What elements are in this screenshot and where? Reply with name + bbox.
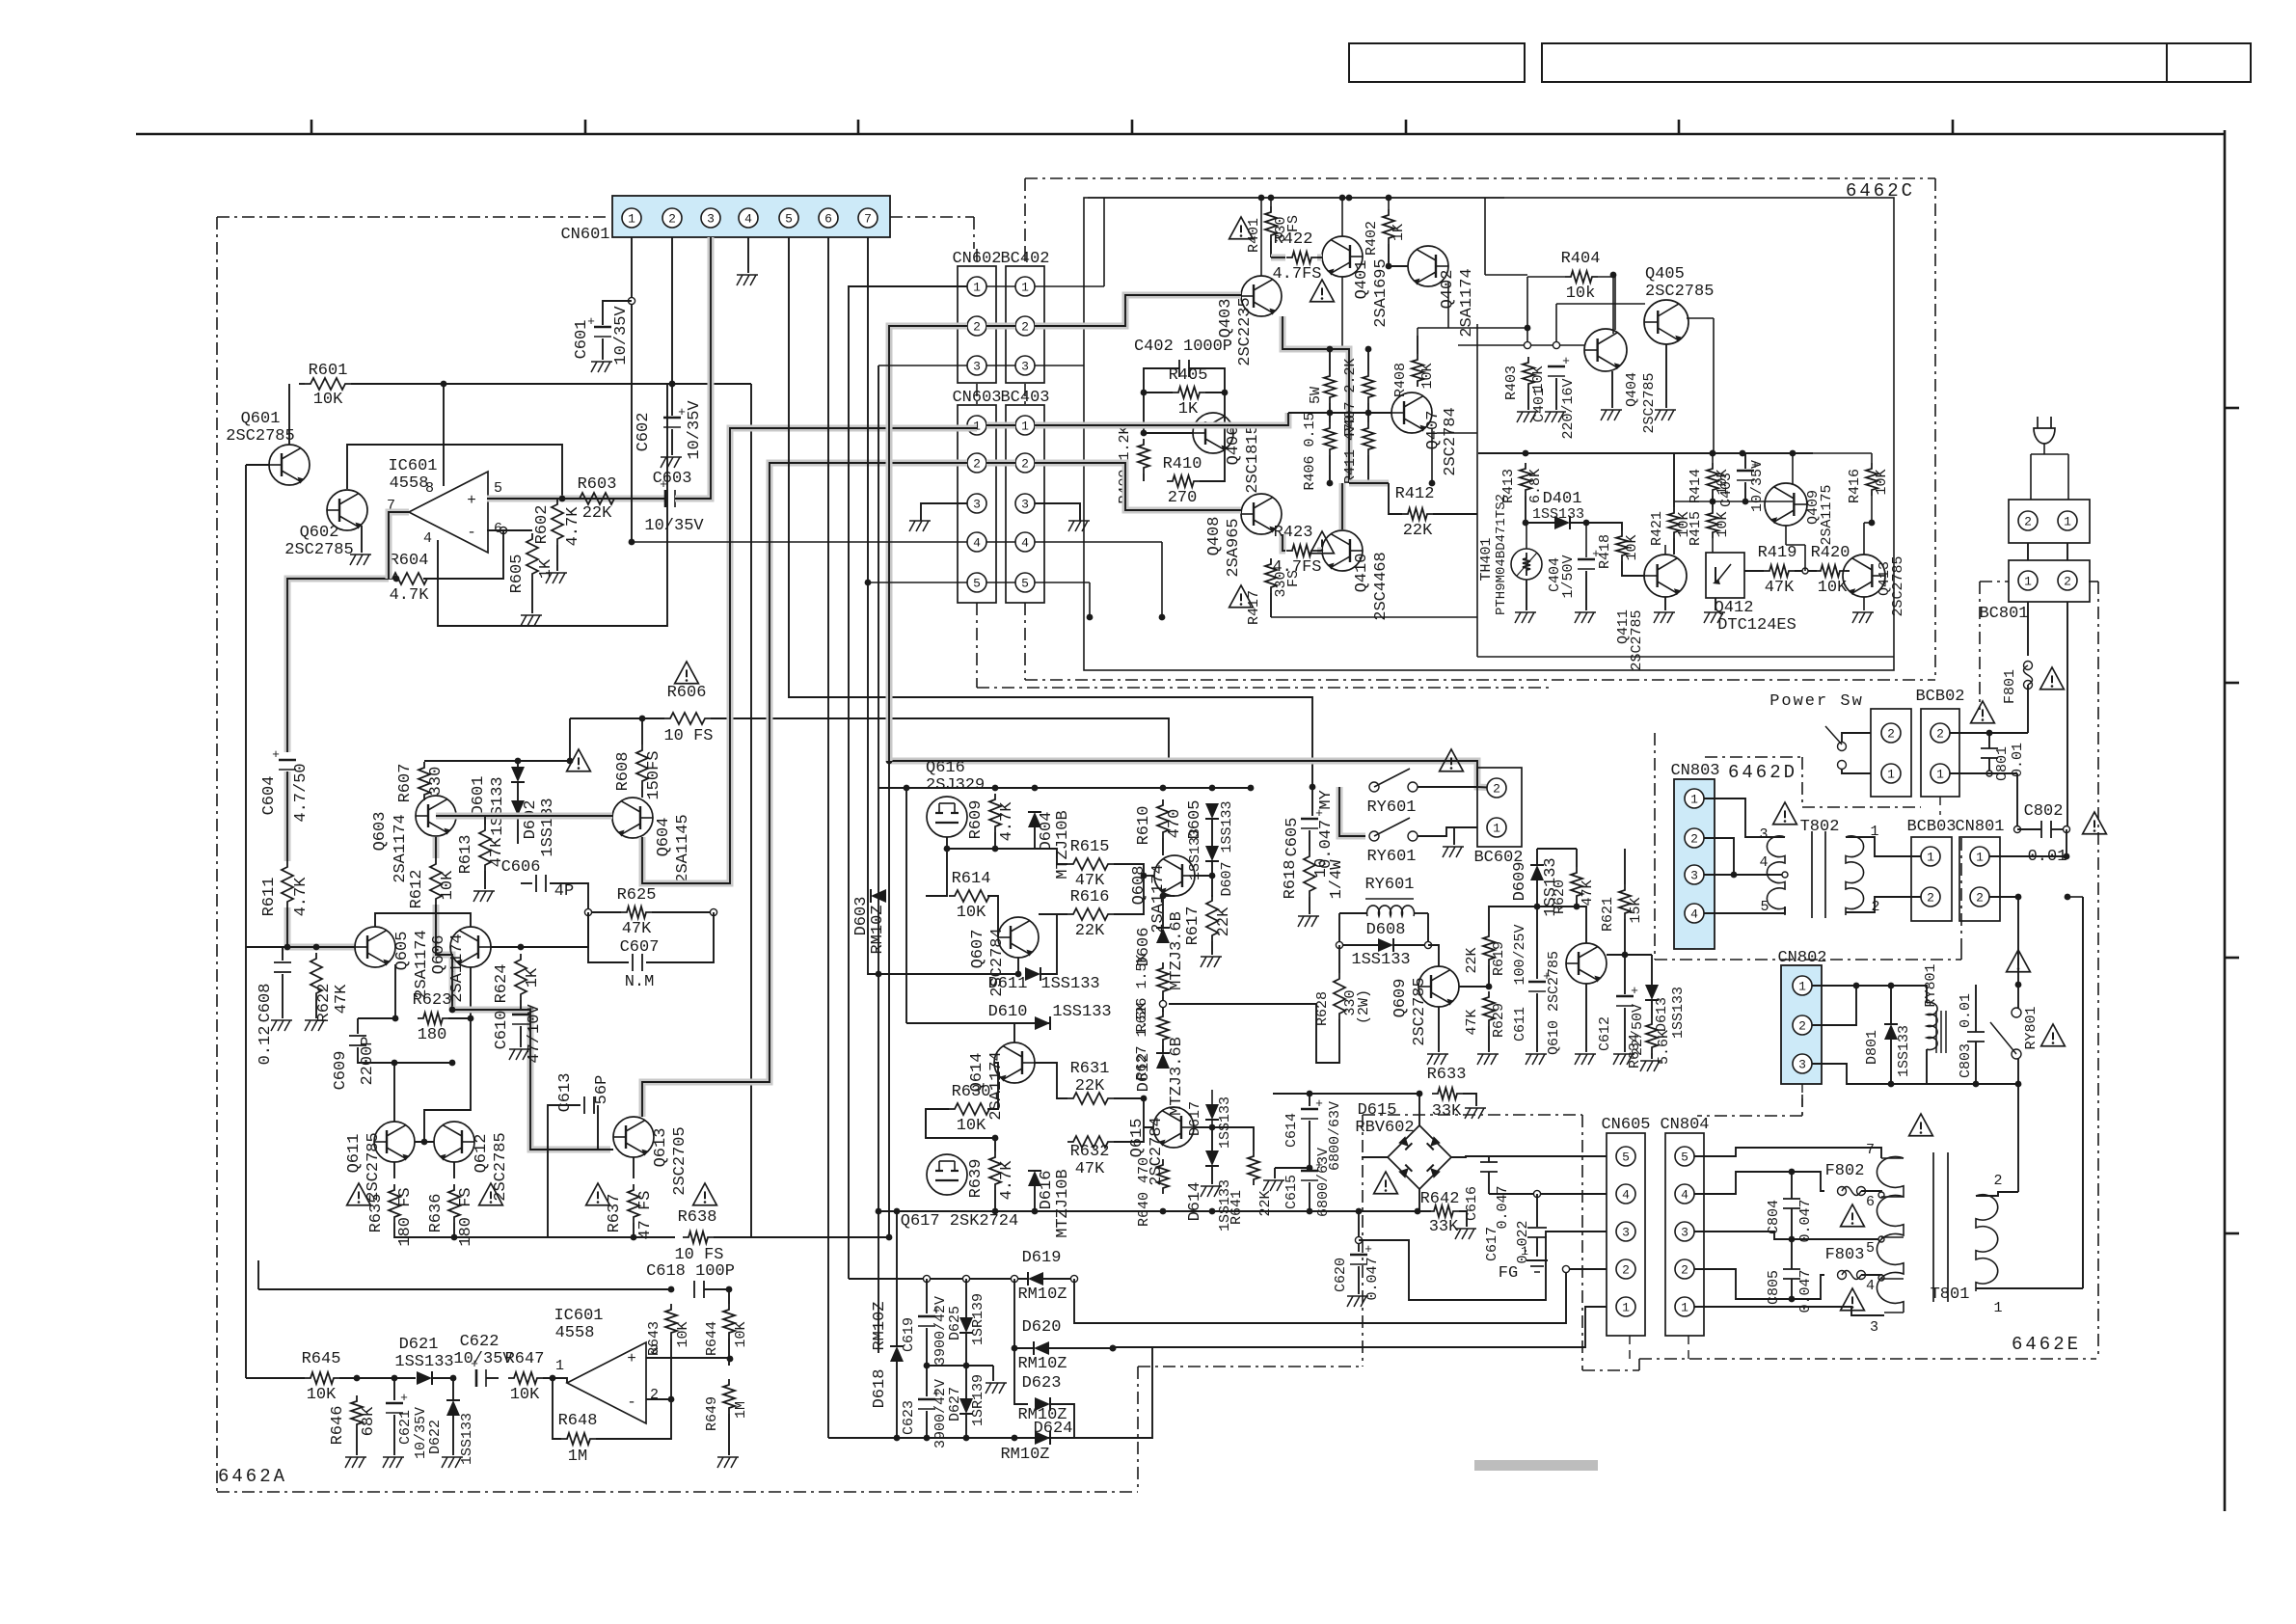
wire (415, 1141, 434, 1143)
gray R422 (1271, 255, 1285, 261)
wire (1163, 895, 1175, 897)
svg-text:D601: D601 (470, 776, 488, 816)
wire (1339, 944, 1378, 946)
wire (750, 384, 752, 1237)
wire (394, 964, 396, 1018)
svg-text:2200P: 2200P (359, 1036, 377, 1085)
svg-text:1: 1 (1521, 1244, 1528, 1259)
wire (470, 1018, 472, 1063)
CN601 pin 3 (701, 208, 720, 228)
svg-text:270: 270 (1168, 489, 1198, 507)
CN603 pin 1 (967, 416, 986, 435)
svg-text:Q610 2SC2785: Q610 2SC2785 (1546, 951, 1562, 1055)
svg-text:22K: 22K (1215, 907, 1233, 936)
wire (1527, 390, 1529, 410)
wire (1114, 864, 1144, 876)
svg-text:5.6K: 5.6K (1656, 1030, 1672, 1065)
svg-text:2SA1174: 2SA1174 (1458, 268, 1476, 337)
svg-text:10/35V: 10/35V (644, 517, 704, 535)
wire (987, 1063, 998, 1109)
svg-text:R423: R423 (1274, 524, 1313, 542)
title block left box (1349, 43, 1525, 82)
svg-text:2: 2 (2064, 575, 2071, 589)
wire (947, 849, 1067, 864)
gray q603 r612 (433, 837, 440, 858)
svg-text:150FS: 150FS (645, 750, 663, 799)
svg-text:R607: R607 (396, 764, 415, 803)
svg-text:1SS133: 1SS133 (1052, 1003, 1111, 1021)
CN605 pin 5 (1616, 1147, 1635, 1166)
svg-text:10K: 10K (313, 391, 343, 409)
CN801 pin2 (1970, 887, 1989, 907)
svg-text:2: 2 (1493, 782, 1500, 797)
resistor R420 (1815, 565, 1846, 577)
warning triangle T802 (1773, 802, 1797, 825)
resistor R408 (1412, 354, 1423, 387)
svg-text:5: 5 (1866, 1240, 1875, 1257)
svg-text:CN602: CN602 (952, 250, 1001, 268)
wire (375, 913, 471, 927)
svg-text:2: 2 (1798, 1019, 1806, 1034)
BC802 pin1 (1931, 764, 1950, 783)
wire Q401 to rail (1341, 198, 1343, 236)
resistor R404 (1565, 271, 1598, 283)
svg-text:10K: 10K (1874, 469, 1890, 495)
wire R414 top to rail (1712, 453, 1714, 463)
diode D619 (1028, 1272, 1043, 1286)
svg-text:6: 6 (824, 212, 832, 227)
wire (1624, 1008, 1626, 1052)
warning triangle T801 (1909, 1114, 1933, 1136)
transformer T802 primary (1767, 836, 1785, 915)
svg-text:1: 1 (1936, 768, 1944, 782)
svg-text:3: 3 (1681, 1226, 1688, 1240)
gray2 (456, 813, 612, 820)
svg-text:R637: R637 (606, 1194, 624, 1233)
CN804 pin 3 (1675, 1222, 1694, 1241)
wire (393, 1378, 395, 1400)
wire (704, 1288, 729, 1290)
wire (1744, 482, 1746, 501)
AC plug (2034, 428, 2055, 444)
svg-text:RM10Z: RM10Z (869, 905, 887, 954)
svg-text:C803: C803 (1958, 1043, 1974, 1078)
resistor R413 (1520, 463, 1531, 496)
wire (2027, 602, 2029, 656)
svg-text:22K: 22K (1257, 1190, 1274, 1216)
svg-text:4.7/50: 4.7/50 (292, 763, 311, 822)
capacitor C604 (279, 759, 296, 762)
capacitor C618 (668, 1286, 675, 1293)
wire (1715, 598, 1716, 610)
wire (1673, 453, 1675, 507)
svg-text:4: 4 (423, 530, 432, 547)
svg-text:Q604: Q604 (655, 818, 673, 857)
wire (1050, 1404, 1074, 1438)
wire (1526, 580, 1527, 610)
wire (393, 1063, 395, 1122)
resistor R415 (1707, 507, 1718, 538)
relay contact RY601 b (1369, 831, 1379, 841)
wire (1791, 1172, 1793, 1199)
wire (1988, 733, 1990, 748)
wire (926, 1328, 928, 1366)
svg-text:R632: R632 (1070, 1143, 1110, 1161)
svg-text:R419: R419 (1758, 544, 1797, 562)
wire (633, 1157, 635, 1178)
warning triangle Q410 (1310, 531, 1335, 554)
diode D605 (1205, 803, 1219, 819)
wire (1014, 1348, 1028, 1404)
CN801 pin1 (1970, 847, 1989, 866)
svg-text:R644: R644 (704, 1321, 720, 1356)
svg-text:Q412: Q412 (1715, 599, 1754, 617)
svg-text:5: 5 (494, 480, 502, 497)
wire (556, 545, 558, 571)
svg-text:R643: R643 (646, 1321, 662, 1356)
gray base row (287, 907, 355, 947)
wire (1418, 786, 1477, 788)
wire (1555, 378, 1557, 410)
wire (728, 1289, 730, 1304)
wire (1585, 571, 1587, 610)
wire (1311, 787, 1313, 816)
transistor Q610 (1566, 943, 1607, 984)
svg-text:RY601: RY601 (1364, 876, 1414, 894)
svg-text:T802: T802 (1800, 818, 1840, 836)
svg-text:2SC2785: 2SC2785 (284, 541, 353, 559)
wire (2051, 828, 2066, 830)
diode D617 (1211, 1090, 1213, 1104)
capacitor C803 (1967, 1031, 1985, 1033)
wire (1463, 1094, 1476, 1106)
resistor R414 (1707, 463, 1718, 496)
inner box 6462C (1084, 198, 1894, 670)
svg-text:+: + (1631, 984, 1638, 998)
svg-text:3: 3 (1021, 498, 1029, 512)
wire (1114, 876, 1144, 914)
svg-text:1SS133: 1SS133 (1187, 828, 1203, 880)
resistor R411 (1363, 422, 1374, 455)
wire (905, 788, 907, 1023)
svg-text:C801: C801 (1994, 746, 2011, 781)
svg-text:Q603: Q603 (371, 812, 390, 852)
wire (438, 384, 667, 626)
wire (521, 912, 588, 947)
svg-text:R634: R634 (1627, 1034, 1643, 1069)
wire (1673, 538, 1675, 555)
svg-text:1: 1 (1021, 420, 1029, 434)
transistor Q607 (998, 917, 1039, 958)
warning triangle bridge (1374, 1172, 1398, 1194)
transistor Q401 (1322, 236, 1363, 277)
gray ry601 b (1339, 787, 1365, 836)
warning triangle R635 (347, 1183, 371, 1205)
wire (1358, 1244, 1360, 1252)
wire (1625, 954, 1652, 956)
thermistor TH401 (1511, 549, 1542, 580)
connector CN603 body (958, 405, 996, 603)
resistor R620 (1571, 867, 1582, 902)
svg-text:Q406: Q406 (1225, 426, 1243, 466)
svg-text:C805: C805 (1766, 1270, 1782, 1305)
wire (641, 718, 643, 744)
BC403 pin 4 (1015, 532, 1035, 552)
wire (424, 760, 570, 762)
transistor Q405 (1644, 300, 1688, 344)
wire (1576, 902, 1578, 907)
svg-text:8: 8 (425, 480, 434, 497)
svg-text:C614: C614 (1283, 1113, 1300, 1148)
svg-text:10K: 10K (957, 1117, 986, 1135)
wire (641, 787, 643, 798)
svg-text:DTC124ES: DTC124ES (1717, 616, 1796, 635)
wire (1211, 1166, 1213, 1184)
svg-text:C605: C605 (1283, 818, 1302, 857)
warning triangle C802 (2083, 812, 2107, 834)
wire (1795, 570, 1817, 572)
svg-text:D622: D622 (427, 1420, 444, 1454)
wire rail right drop (1484, 198, 1486, 275)
svg-text:1: 1 (1681, 1301, 1688, 1315)
wire (1489, 1193, 1607, 1195)
transformer T801 primary (1976, 1195, 1998, 1291)
connector BC403 body (1006, 405, 1044, 603)
wire (520, 1000, 522, 1011)
svg-text:4: 4 (1690, 907, 1698, 922)
svg-text:Q405: Q405 (1645, 265, 1685, 284)
svg-text:D620: D620 (1022, 1318, 1062, 1337)
wire (1275, 1167, 1310, 1169)
wire Q413 collector (1863, 523, 1865, 555)
svg-text:4.7FS: 4.7FS (1272, 265, 1321, 284)
wire (484, 871, 486, 889)
wire (1791, 1279, 1793, 1299)
wire (1418, 1189, 1420, 1211)
wire (1846, 897, 1921, 912)
svg-text:CN802: CN802 (1777, 949, 1826, 967)
wire (517, 782, 519, 800)
svg-text:D613: D613 (1654, 997, 1670, 1032)
svg-text:R633: R633 (1427, 1066, 1467, 1084)
gray q604 em (642, 428, 977, 883)
svg-text:2: 2 (1021, 457, 1029, 472)
wire (596, 1399, 671, 1439)
transistor Q412 digital (1706, 553, 1744, 598)
svg-text:D621: D621 (399, 1336, 439, 1354)
dashed drop CN605 (1629, 1336, 1631, 1362)
svg-text:R611: R611 (260, 878, 279, 917)
svg-text:R618: R618 (1282, 860, 1300, 900)
warning triangle RY801 a (2007, 950, 2031, 972)
svg-text:Q611: Q611 (345, 1134, 364, 1174)
wire (1622, 561, 1644, 576)
wire Q413 emitter (1863, 597, 1865, 610)
svg-text:1: 1 (1493, 822, 1500, 836)
wire (646, 1398, 671, 1400)
svg-text:PTH9M04BD471TS2: PTH9M04BD471TS2 (1494, 494, 1509, 615)
wire Q407 emitter riser (1437, 432, 1477, 434)
svg-text:2SC2785: 2SC2785 (1890, 555, 1906, 616)
svg-text:2: 2 (1976, 891, 1984, 906)
wire (1704, 798, 1785, 837)
connector CN801 box (1959, 837, 2000, 921)
wire (282, 947, 284, 961)
svg-text:C611: C611 (1512, 1007, 1528, 1042)
svg-text:Q602: Q602 (300, 524, 339, 542)
warning triangle R636 (479, 1183, 503, 1205)
wire (1842, 769, 1871, 773)
svg-text:1: 1 (2064, 515, 2071, 529)
diode D801 (1884, 1024, 1898, 1040)
wire R417 bottom row (1271, 616, 1477, 618)
capacitor C401 (1548, 365, 1565, 368)
wire (1812, 985, 1856, 987)
svg-text:2: 2 (1021, 320, 1029, 335)
svg-text:2SC2785: 2SC2785 (1645, 283, 1714, 301)
wire (1694, 1232, 1881, 1239)
wire BC403-4 right (1035, 541, 1162, 543)
svg-text:C402 1000P: C402 1000P (1134, 338, 1232, 356)
transformer T801 core (1932, 1152, 1934, 1302)
wire BC403-3 gnd (1035, 503, 1080, 521)
resistor R621 (1619, 884, 1631, 919)
svg-text:3: 3 (1798, 1058, 1806, 1072)
svg-text:+: + (678, 405, 686, 420)
wire (1049, 1347, 1113, 1349)
svg-text:1/4W: 1/4W (1328, 859, 1346, 900)
top tick 1 (311, 120, 313, 134)
svg-text:2SC4468: 2SC4468 (1372, 552, 1391, 620)
wire (1576, 849, 1578, 867)
svg-text:Power Sw: Power Sw (1769, 692, 1864, 711)
wire (1393, 944, 1428, 946)
wire (2017, 985, 2019, 1008)
svg-text:T801: T801 (1931, 1286, 1970, 1304)
wire (339, 1377, 416, 1379)
svg-text:4558: 4558 (390, 474, 429, 493)
svg-text:2SA1174: 2SA1174 (413, 930, 431, 998)
transistor Q616 mosfet (927, 797, 967, 837)
svg-text:2: 2 (973, 320, 981, 335)
wire (646, 912, 714, 962)
wire (1367, 349, 1369, 370)
svg-text:22K: 22K (1403, 522, 1433, 540)
wire (1454, 827, 1477, 845)
wire (1890, 986, 1892, 1024)
wire (1975, 1042, 1977, 1084)
svg-text:7: 7 (864, 212, 872, 227)
wire (517, 761, 519, 767)
svg-text:Q616: Q616 (926, 759, 965, 777)
connector CN602 body (958, 266, 996, 383)
wire (486, 1377, 499, 1379)
wire (531, 580, 533, 613)
title block main box (1542, 43, 2251, 82)
wire TH401 block bottom (1477, 656, 1894, 658)
CN603 pin 2 (967, 453, 986, 473)
svg-text:R408: R408 (1392, 363, 1409, 397)
svg-text:R602: R602 (533, 505, 552, 545)
warning triangle F801 (2040, 667, 2065, 690)
svg-text:6462A: 6462A (218, 1466, 287, 1487)
svg-text:1: 1 (1870, 824, 1878, 840)
svg-text:Q401: Q401 (1353, 260, 1371, 300)
svg-text:D610: D610 (988, 1003, 1028, 1021)
wire (246, 464, 269, 466)
wire (443, 384, 445, 486)
svg-text:C617: C617 (1484, 1227, 1500, 1261)
wire (1665, 344, 1667, 408)
svg-text:R619: R619 (1491, 941, 1507, 976)
svg-text:R641: R641 (1229, 1190, 1245, 1225)
svg-text:R620: R620 (1552, 880, 1568, 914)
transistor Q402 (1408, 246, 1448, 286)
svg-text:C804: C804 (1766, 1200, 1782, 1234)
resistor R412 (1402, 508, 1433, 520)
wire (926, 1366, 928, 1396)
svg-text:2SA1145: 2SA1145 (674, 814, 692, 882)
svg-text:56P: 56P (593, 1075, 611, 1105)
svg-text:2: 2 (1681, 1263, 1688, 1278)
wire (1039, 913, 1067, 915)
svg-text:0.047: 0.047 (1364, 1257, 1381, 1300)
sheet top border line (136, 133, 2225, 136)
wire (1074, 1269, 1607, 1323)
op-amp IC601 unit B (567, 1342, 646, 1423)
svg-text:47K: 47K (622, 920, 652, 938)
svg-text:0.01: 0.01 (2010, 743, 2026, 777)
svg-text:22K: 22K (582, 504, 612, 523)
BC402 pin 3 (1015, 356, 1035, 375)
svg-text:R642: R642 (1420, 1190, 1460, 1208)
diode D608 (1378, 938, 1393, 952)
svg-text:Q613: Q613 (652, 1128, 670, 1168)
wire (1488, 965, 1490, 987)
svg-text:C602: C602 (635, 413, 653, 452)
gray bus (889, 761, 1497, 788)
svg-text:R645: R645 (302, 1350, 341, 1368)
wire (1050, 1437, 1074, 1439)
CN601 pin 6 (819, 208, 838, 228)
svg-text:CN605: CN605 (1601, 1116, 1650, 1134)
svg-text:R401: R401 (1246, 218, 1262, 253)
rail 6462C top wire (1088, 197, 1504, 199)
wire (1890, 1040, 1892, 1084)
wire (1975, 985, 1977, 1032)
svg-text:R639: R639 (967, 1159, 986, 1199)
svg-text:+: + (272, 747, 280, 762)
svg-text:68K: 68K (360, 1406, 378, 1436)
wire (994, 1190, 996, 1210)
svg-text:MTZJ10B: MTZJ10B (1054, 1169, 1072, 1237)
wire (1367, 455, 1369, 483)
wire (670, 1339, 672, 1399)
wire (1162, 1045, 1164, 1053)
wire (1367, 403, 1369, 422)
CN605 pin 1 (1616, 1297, 1635, 1316)
svg-text:C622: C622 (460, 1333, 500, 1351)
svg-text:F802: F802 (1825, 1162, 1865, 1180)
svg-text:2: 2 (2024, 515, 2032, 529)
wire (1433, 513, 1477, 515)
svg-text:1: 1 (1993, 1300, 2002, 1316)
wire (1694, 1172, 1824, 1194)
wire (1389, 244, 1408, 266)
svg-text:R646: R646 (329, 1406, 347, 1446)
zener D604 (1028, 812, 1041, 827)
svg-text:1SS133: 1SS133 (1670, 987, 1687, 1039)
